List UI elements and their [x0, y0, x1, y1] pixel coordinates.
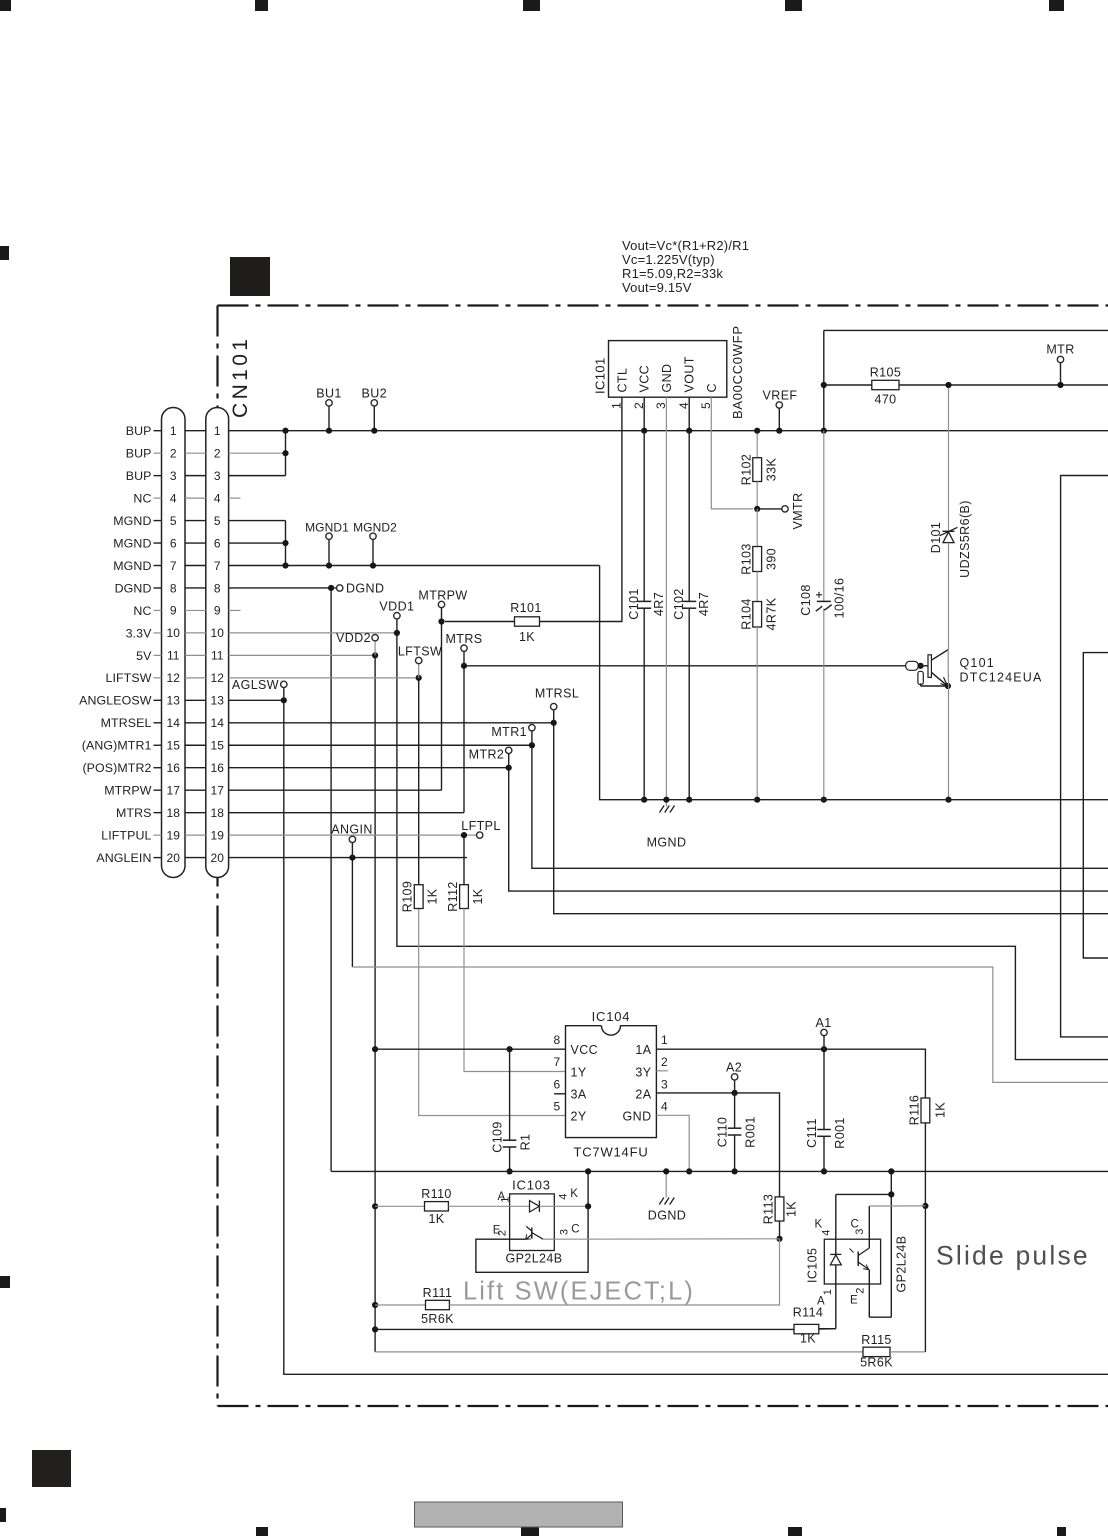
svg-text:CN101: CN101 [229, 336, 252, 418]
svg-text:17: 17 [211, 783, 225, 797]
terminal BU2 [362, 387, 388, 434]
svg-text:GP2L24B: GP2L24B [895, 1235, 909, 1292]
svg-text:390: 390 [765, 548, 779, 570]
wire IC104 pin6 3A stub [554, 1093, 565, 1095]
svg-text:19: 19 [211, 828, 225, 842]
wire LIFTSW net (pin 12 through R109 to IC104 2Y) [229, 675, 566, 1116]
svg-text:D101: D101 [929, 522, 943, 553]
terminal MTR [1046, 343, 1074, 389]
svg-text:Vout=Vc*(R1+R2)/R1: Vout=Vc*(R1+R2)/R1 [622, 238, 749, 253]
optocoupler/photointerrupter IC105 GP2L24B [806, 1194, 909, 1328]
svg-text:LIFTSW: LIFTSW [105, 671, 151, 685]
wire IC105 K/E ground route [836, 1168, 895, 1317]
terminal LFTSW [398, 645, 442, 678]
resistor R111 5R6K [375, 1239, 779, 1326]
svg-text:19: 19 [167, 828, 181, 842]
svg-text:3A: 3A [571, 1088, 587, 1102]
svg-text:MGND: MGND [647, 836, 687, 850]
capacitor C108 100/16 (electrolytic) [799, 431, 847, 803]
resistor R101 [445, 601, 542, 644]
svg-text:GND: GND [623, 1110, 652, 1124]
svg-text:DGND: DGND [346, 581, 384, 595]
svg-text:R116: R116 [908, 1095, 922, 1126]
svg-text:BUP: BUP [126, 469, 152, 483]
svg-text:15: 15 [167, 739, 181, 753]
svg-text:C108: C108 [799, 584, 813, 615]
svg-text:3: 3 [170, 469, 177, 483]
resistor R103 390 [740, 509, 779, 575]
svg-text:DTC124EUA: DTC124EUA [960, 671, 1043, 685]
svg-text:MTRSL: MTRSL [535, 687, 579, 701]
svg-text:MTRPW: MTRPW [418, 589, 467, 603]
svg-text:13: 13 [211, 694, 225, 708]
svg-text:1: 1 [500, 1196, 512, 1203]
svg-text:Vc=1.225V(typ): Vc=1.225V(typ) [622, 252, 715, 267]
svg-text:Vout=9.15V: Vout=9.15V [622, 280, 692, 295]
svg-text:DGND: DGND [648, 1209, 686, 1223]
svg-text:6: 6 [170, 536, 177, 550]
IC U101 regulator IC101 BA00CC0WFP [593, 325, 746, 419]
svg-text:14: 14 [167, 716, 181, 730]
svg-text:1: 1 [214, 424, 221, 438]
terminal VREF [763, 389, 798, 434]
IC off-page block (inner) [1083, 653, 1108, 958]
svg-text:R111: R111 [423, 1286, 453, 1300]
svg-text:Slide pulse: Slide pulse [936, 1241, 1090, 1271]
svg-text:K: K [570, 1188, 578, 1200]
svg-text:C: C [571, 1223, 580, 1235]
wire DGND net (pin 8, down to DGND rail) [229, 585, 335, 1172]
svg-text:1A: 1A [635, 1043, 651, 1057]
terminal MTRSL [535, 687, 579, 723]
svg-text:CTL: CTL [615, 368, 629, 393]
terminal A1 [815, 1016, 831, 1049]
svg-text:BU1: BU1 [316, 387, 342, 401]
svg-text:A1: A1 [815, 1016, 831, 1030]
wire IC104 pin4 GND to DGND rail [656, 1115, 692, 1174]
svg-text:IC103: IC103 [512, 1178, 551, 1193]
svg-text:2A: 2A [635, 1088, 651, 1102]
svg-text:2: 2 [661, 1055, 668, 1069]
svg-text:VDD1: VDD1 [379, 600, 414, 614]
wire VCC pin2 to BUP rail [641, 397, 647, 434]
svg-text:11: 11 [211, 649, 224, 663]
svg-text:6: 6 [214, 536, 221, 550]
resistor R110 1K [375, 1187, 510, 1226]
svg-text:C109: C109 [491, 1121, 505, 1152]
svg-text:4: 4 [661, 1100, 668, 1114]
svg-text:R001: R001 [833, 1117, 847, 1148]
svg-text:GND: GND [660, 364, 674, 393]
wire 2A net (IC104 pin3, A2 node, to R113) [656, 1090, 779, 1197]
svg-text:R102: R102 [740, 454, 754, 485]
svg-text:MTRS: MTRS [445, 632, 482, 646]
terminal DGND (pin 8) [334, 581, 384, 595]
svg-text:R105: R105 [870, 366, 901, 380]
svg-text:VREF: VREF [763, 389, 798, 403]
wire GND pin3 to MGND rail [665, 397, 667, 800]
wire C pin5 to VMTR node [711, 397, 753, 509]
svg-text:13: 13 [167, 694, 181, 708]
wire VCC net to IC104 pin8 [374, 1046, 565, 1052]
wire MTR1 net (pin 15, route to right edge) [229, 742, 1108, 868]
svg-text:Lift SW(EJECT;L): Lift SW(EJECT;L) [463, 1278, 695, 1306]
resistor R105 470 [824, 366, 1108, 407]
wire MTRPW net (pin 17 up to R101 line) [229, 618, 445, 790]
svg-text:1: 1 [610, 402, 624, 409]
svg-text:5R6K: 5R6K [421, 1312, 454, 1326]
svg-text:VCC: VCC [571, 1043, 599, 1057]
svg-text:VMTR: VMTR [791, 492, 805, 529]
svg-text:3.3V: 3.3V [126, 626, 153, 640]
svg-text:17: 17 [167, 783, 181, 797]
svg-text:AGLSW: AGLSW [232, 678, 279, 692]
svg-text:NC: NC [133, 604, 151, 618]
svg-text:470: 470 [874, 393, 896, 407]
svg-text:14: 14 [211, 716, 225, 730]
svg-text:R114: R114 [793, 1306, 824, 1320]
resistor R112 1K [446, 881, 485, 912]
svg-text:MGND: MGND [113, 559, 151, 573]
wire MTR2 net (pin 16, route to right edge) [229, 765, 1108, 891]
wire IC103 C output to R113 node [554, 1238, 779, 1240]
svg-text:GP2L24B: GP2L24B [505, 1252, 562, 1266]
svg-text:8: 8 [553, 1033, 560, 1047]
wire IC103 E/K ground route [476, 1168, 591, 1272]
optocoupler/photointerrupter IC103 GP2L24B [493, 1178, 588, 1266]
svg-text:E: E [850, 1295, 858, 1307]
wire MGND rail [600, 566, 1108, 800]
svg-text:5V: 5V [136, 649, 152, 663]
svg-text:1K: 1K [426, 888, 440, 904]
svg-text:1: 1 [822, 1289, 834, 1296]
transistor Q101 DTC124EUA [906, 650, 1043, 803]
svg-text:R112: R112 [446, 881, 460, 912]
svg-text:15: 15 [211, 739, 225, 753]
svg-text:TC7W14FU: TC7W14FU [573, 1145, 648, 1160]
wire MTRS net (pin 18 up to Q101 base line) [229, 663, 906, 813]
text Lift SW(EJECT;L) [463, 1278, 695, 1306]
svg-text:5: 5 [214, 514, 221, 528]
svg-text:IC105: IC105 [806, 1248, 820, 1283]
svg-text:4R7: 4R7 [697, 592, 711, 616]
svg-text:1K: 1K [934, 1102, 948, 1118]
svg-text:LFTPL: LFTPL [461, 819, 501, 833]
wire CTL net (R101 output to IC101 pin1) [540, 397, 622, 621]
svg-text:3: 3 [214, 469, 221, 483]
wire BUP net (pins 1-3, rail to right edge) [229, 428, 1108, 476]
svg-text:C101: C101 [627, 588, 641, 619]
wire NC stub pin 4 [229, 497, 241, 499]
svg-text:10: 10 [211, 626, 225, 640]
svg-text:3: 3 [559, 1229, 571, 1236]
svg-text:ANGLEOSW: ANGLEOSW [79, 694, 152, 708]
wire NC stub pin 9 [229, 609, 241, 611]
svg-text:R113: R113 [762, 1194, 776, 1225]
resistor R113 1K [762, 1194, 799, 1242]
diode D101 UDZS5R6(B) zener [929, 382, 972, 650]
svg-text:MTR: MTR [1046, 343, 1074, 357]
svg-text:20: 20 [167, 851, 181, 865]
svg-text:LIFTPUL: LIFTPUL [101, 829, 151, 843]
terminal MTRPW [418, 589, 467, 622]
svg-text:VOUT: VOUT [683, 356, 697, 392]
svg-text:1Y: 1Y [571, 1065, 587, 1079]
svg-text:4: 4 [821, 1229, 833, 1236]
resistor R116 1K [908, 1095, 948, 1209]
svg-text:1K: 1K [800, 1332, 816, 1346]
terminal LFTPL [461, 819, 501, 838]
svg-text:(ANG)MTR1: (ANG)MTR1 [82, 739, 152, 753]
wire 1A net (IC104 pin1, A1 node, to R116) [656, 1046, 925, 1098]
svg-text:9: 9 [214, 604, 221, 618]
node VMTR / terminal VMTR [754, 482, 805, 530]
svg-text:3: 3 [854, 1228, 866, 1235]
svg-text:R1=5.09,R2=33k: R1=5.09,R2=33k [622, 266, 723, 281]
svg-text:VDD2: VDD2 [336, 631, 371, 645]
svg-text:MTR2: MTR2 [469, 748, 505, 762]
svg-text:2: 2 [214, 446, 221, 460]
svg-text:MGND: MGND [113, 514, 151, 528]
terminal MTR1 [491, 725, 535, 746]
svg-text:2Y: 2Y [571, 1110, 587, 1124]
text Slide pulse [936, 1241, 1090, 1271]
svg-text:11: 11 [167, 649, 180, 663]
svg-text:(POS)MTR2: (POS)MTR2 [82, 761, 151, 775]
svg-text:3: 3 [661, 1078, 668, 1092]
terminal VDD2 [336, 631, 378, 655]
svg-text:18: 18 [167, 806, 181, 820]
svg-text:4R7K: 4R7K [765, 597, 779, 630]
svg-text:MTRS: MTRS [116, 806, 152, 820]
svg-text:1K: 1K [785, 1201, 799, 1217]
svg-text:5: 5 [553, 1100, 560, 1114]
capacitor C110 R001 [716, 1093, 758, 1175]
svg-text:7: 7 [553, 1055, 560, 1069]
IC off-page block (outer) [1061, 476, 1108, 1037]
wire ANGLEOSW net (pin 13, AGLSW route to bottom right) [229, 697, 1108, 1374]
svg-text:33K: 33K [765, 458, 779, 482]
svg-text:DGND: DGND [115, 581, 152, 595]
terminal MGND2 [353, 521, 397, 566]
svg-text:4R7: 4R7 [652, 592, 666, 616]
svg-text:MGND2: MGND2 [353, 521, 397, 535]
resistor R102 33K [740, 428, 779, 486]
terminal MTR2 [469, 747, 512, 768]
svg-text:R1: R1 [519, 1134, 533, 1151]
svg-text:9: 9 [170, 604, 177, 618]
ground DGND symbol [648, 1168, 686, 1222]
svg-text:R104: R104 [740, 598, 754, 629]
resistor R115 5R6K [860, 1206, 925, 1370]
svg-text:VCC: VCC [638, 365, 652, 393]
svg-text:K: K [815, 1219, 823, 1231]
svg-text:4: 4 [558, 1193, 570, 1200]
capacitor C101 4R7 [627, 431, 666, 803]
svg-text:7: 7 [170, 559, 177, 573]
svg-text:R109: R109 [401, 881, 415, 912]
svg-text:BU2: BU2 [362, 387, 388, 401]
svg-text:C102: C102 [672, 588, 686, 619]
wire VOUT pin4 to BUP rail [686, 397, 692, 434]
svg-text:MGND: MGND [113, 536, 151, 550]
svg-text:12: 12 [211, 671, 225, 685]
wire IC105 C output to R116 node [869, 1205, 925, 1207]
svg-text:A2: A2 [726, 1061, 742, 1075]
wire LIFTPUL net (pin 19 down through R112 to IC104 1Y) [229, 832, 566, 1071]
svg-text:R001: R001 [743, 1116, 757, 1147]
terminal MTRS [445, 632, 482, 666]
wire DGND rail [331, 1170, 1108, 1172]
svg-text:6: 6 [553, 1078, 560, 1092]
svg-text:R110: R110 [421, 1187, 452, 1201]
svg-text:MTR1: MTR1 [491, 725, 527, 739]
svg-text:BA00CC0WFP: BA00CC0WFP [730, 325, 745, 419]
terminal BU1 [316, 387, 342, 434]
svg-text:Q101: Q101 [960, 656, 995, 670]
svg-text:IC104: IC104 [592, 1009, 631, 1024]
svg-text:UDZS5R6(B): UDZS5R6(B) [958, 500, 972, 578]
svg-text:MGND1: MGND1 [305, 521, 349, 535]
svg-text:C: C [705, 383, 719, 392]
ground MGND symbol [647, 797, 687, 850]
terminal AGLSW [232, 678, 287, 700]
svg-text:16: 16 [167, 761, 181, 775]
svg-text:1: 1 [661, 1033, 668, 1047]
svg-text:4: 4 [170, 491, 177, 505]
svg-text:12: 12 [167, 671, 181, 685]
svg-text:100/16: 100/16 [833, 578, 847, 619]
svg-text:1K: 1K [519, 630, 535, 644]
svg-text:1K: 1K [428, 1212, 444, 1226]
wire MTRSEL net (pin 14, MTRSL route to right edge) [229, 720, 1108, 914]
svg-text:10: 10 [167, 626, 181, 640]
svg-text:MTRSEL: MTRSEL [101, 716, 152, 730]
svg-text:5R6K: 5R6K [860, 1356, 893, 1370]
wire 3.3V VDD1 net (pin 10, route to right) [229, 630, 1108, 1060]
wire IC104 pin2 3Y stub [656, 1070, 667, 1072]
svg-text:R115: R115 [861, 1333, 892, 1347]
IC U104 hex inverter IC104 TC7W14FU [553, 1009, 668, 1160]
capacitor C109 R1 [491, 1049, 533, 1174]
terminal VDD1 [379, 600, 414, 633]
svg-text:BUP: BUP [126, 447, 152, 461]
svg-text:NC: NC [133, 492, 151, 506]
note Vout formula [622, 238, 749, 295]
resistor R109 1K [401, 881, 440, 912]
svg-text:20: 20 [211, 851, 225, 865]
wire 5V VDD2 net (pin 11, vertical distribution, R115 feed) [229, 652, 863, 1352]
wire MGND net (pins 5-7) [229, 521, 600, 569]
terminal MGND1 [305, 521, 349, 566]
svg-text:LFTSW: LFTSW [398, 645, 442, 659]
svg-text:BUP: BUP [126, 424, 152, 438]
svg-text:18: 18 [211, 806, 225, 820]
connector CN101 [79, 336, 252, 878]
resistor R104 4R7K [740, 572, 779, 803]
svg-text:7: 7 [214, 559, 221, 573]
svg-text:8: 8 [170, 581, 177, 595]
svg-text:2: 2 [855, 1287, 867, 1294]
svg-text:C111: C111 [805, 1118, 819, 1148]
svg-text:ANGIN: ANGIN [331, 823, 373, 837]
svg-text:R101: R101 [510, 601, 541, 615]
resistor R114 1K [375, 1306, 836, 1346]
svg-text:R103: R103 [740, 543, 754, 574]
svg-text:3Y: 3Y [635, 1065, 651, 1079]
capacitor C102 4R7 [672, 431, 711, 803]
svg-text:16: 16 [211, 761, 225, 775]
wire ANGLEIN net (pin 20, ANGIN route to right) [229, 854, 1108, 1082]
svg-text:2: 2 [170, 446, 177, 460]
capacitor C111 R001 [805, 1049, 847, 1174]
svg-text:ANGLEIN: ANGLEIN [96, 851, 151, 865]
terminal ANGIN [331, 823, 373, 858]
wire MTR top rail [821, 330, 1108, 433]
svg-text:C110: C110 [716, 1117, 730, 1148]
svg-text:4: 4 [214, 491, 221, 505]
svg-text:MTRPW: MTRPW [104, 784, 152, 798]
svg-text:8: 8 [214, 581, 221, 595]
svg-text:1: 1 [170, 424, 177, 438]
svg-text:IC101: IC101 [593, 357, 608, 394]
terminal A2 [726, 1061, 742, 1093]
svg-text:5: 5 [170, 514, 177, 528]
svg-text:1K: 1K [471, 888, 485, 904]
svg-text:2: 2 [497, 1230, 509, 1237]
